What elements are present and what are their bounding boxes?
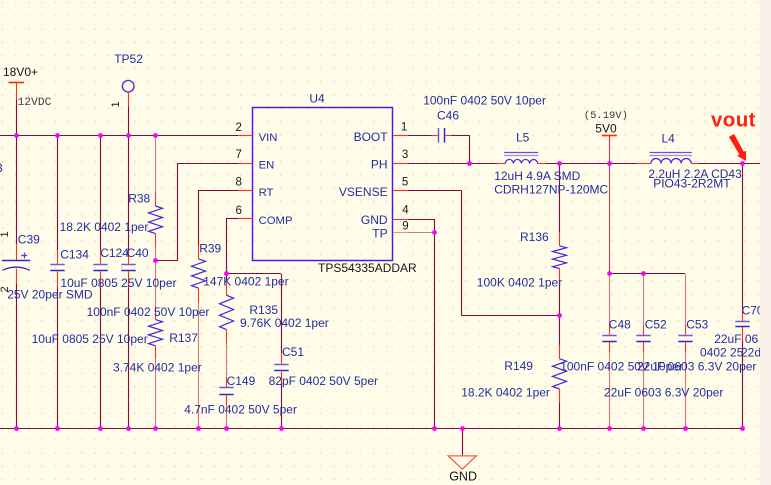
svg-text:R135: R135: [249, 303, 278, 317]
svg-text:EN: EN: [259, 160, 275, 172]
svg-text:5: 5: [402, 177, 408, 189]
svg-text:VIN: VIN: [259, 132, 278, 144]
svg-text:R39: R39: [199, 242, 221, 256]
svg-text:C149: C149: [227, 374, 256, 388]
svg-text:12uH 4.9A SMD: 12uH 4.9A SMD: [494, 169, 580, 183]
svg-text:TP52: TP52: [114, 52, 143, 66]
svg-text:R149: R149: [504, 359, 533, 373]
svg-text:GND: GND: [361, 213, 388, 227]
svg-text:10uF 0805 25V 10per: 10uF 0805 25V 10per: [60, 276, 176, 290]
svg-text:6: 6: [236, 205, 242, 217]
svg-text:C46: C46: [437, 108, 459, 122]
svg-text:10uF 0805 25V 10per: 10uF 0805 25V 10per: [32, 332, 148, 346]
svg-text:100nF 0402 50V 10per: 100nF 0402 50V 10per: [87, 305, 210, 319]
svg-text:147K 0402 1per: 147K 0402 1per: [203, 275, 288, 289]
svg-text:BOOT: BOOT: [354, 130, 389, 144]
svg-text:18V0+: 18V0+: [3, 65, 38, 79]
svg-text:2: 2: [236, 122, 242, 134]
svg-text:1: 1: [110, 101, 122, 107]
svg-text:C40: C40: [127, 246, 149, 260]
svg-text:22d: 22d: [741, 346, 761, 360]
svg-text:100K 0402 1per: 100K 0402 1per: [477, 275, 562, 289]
svg-text:(5.19V): (5.19V): [584, 110, 628, 122]
svg-text:8: 8: [236, 177, 242, 189]
svg-text:TP: TP: [372, 226, 387, 240]
svg-text:CDRH127NP-120MC: CDRH127NP-120MC: [494, 183, 608, 197]
svg-text:C124: C124: [100, 246, 129, 260]
svg-text:3: 3: [0, 161, 3, 175]
svg-text:PH: PH: [371, 158, 388, 172]
svg-text:L5: L5: [516, 131, 530, 145]
svg-text:7: 7: [236, 149, 242, 161]
svg-text:12VDC: 12VDC: [18, 97, 52, 109]
svg-text:C52: C52: [645, 318, 667, 332]
svg-text:3.74K 0402 1per: 3.74K 0402 1per: [113, 360, 202, 374]
svg-text:vout: vout: [711, 108, 756, 131]
svg-text:22uF 06: 22uF 06: [714, 332, 758, 346]
svg-text:C39: C39: [18, 233, 40, 247]
svg-text:L4: L4: [662, 131, 676, 145]
svg-text:18.2K 0402 1per: 18.2K 0402 1per: [461, 385, 550, 399]
svg-text:5V0: 5V0: [595, 122, 617, 136]
svg-text:4.7nF 0402 50V 5per: 4.7nF 0402 50V 5per: [184, 402, 297, 416]
svg-text:9.76K 0402 1per: 9.76K 0402 1per: [240, 316, 329, 330]
svg-text:3: 3: [402, 149, 408, 161]
svg-text:22uF 0603 6.3V 20per: 22uF 0603 6.3V 20per: [637, 359, 756, 373]
svg-text:22uF 0603 6.3V 20per: 22uF 0603 6.3V 20per: [604, 385, 723, 399]
svg-text:1: 1: [0, 231, 11, 237]
svg-text:0402 25: 0402 25: [700, 345, 744, 359]
svg-text:VSENSE: VSENSE: [339, 185, 388, 199]
svg-text:RT: RT: [259, 187, 274, 199]
svg-text:R136: R136: [520, 230, 549, 244]
svg-text:TPS54335ADDAR: TPS54335ADDAR: [318, 261, 417, 275]
svg-text:C48: C48: [609, 318, 631, 332]
svg-text:18.2K 0402 1per: 18.2K 0402 1per: [60, 220, 149, 234]
svg-text:U4: U4: [309, 91, 325, 105]
svg-text:R137: R137: [169, 331, 198, 345]
svg-text:C53: C53: [686, 318, 708, 332]
svg-text:COMP: COMP: [259, 215, 293, 227]
svg-text:1: 1: [401, 122, 407, 134]
svg-text:82pF 0402 50V 5per: 82pF 0402 50V 5per: [269, 374, 378, 388]
svg-text:GND: GND: [449, 469, 477, 483]
svg-text:4: 4: [402, 205, 409, 217]
svg-text:9: 9: [402, 221, 408, 233]
svg-text:C51: C51: [282, 345, 304, 359]
svg-text:R38: R38: [128, 191, 150, 205]
svg-text:C134: C134: [60, 248, 89, 262]
svg-text:PIO43-2R2MT: PIO43-2R2MT: [653, 177, 731, 191]
svg-text:100nF 0402 50V 10per: 100nF 0402 50V 10per: [423, 93, 546, 107]
